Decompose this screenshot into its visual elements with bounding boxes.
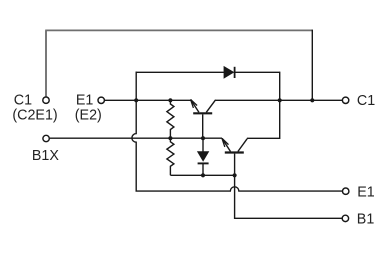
transistor Q1 collector line: [206, 100, 215, 113]
terminal E1 right: [343, 188, 349, 194]
resistor R2: [167, 138, 174, 175]
junction R1 bottom R2 top: [168, 136, 172, 140]
transistor Q1 base bar: [193, 112, 212, 114]
junction D2 cathode on bottom wire: [201, 173, 205, 177]
svg-text:B1X: B1X: [32, 148, 59, 164]
svg-text:(E2): (E2): [75, 107, 102, 123]
transistor Q1 emitter arrow: [191, 100, 198, 108]
wire top loop vertical from C1 (C2E1) terminal: [45, 30, 47, 96]
junction top loop x C1 wire: [310, 98, 314, 102]
diode D2 cathode bar: [198, 162, 209, 164]
svg-text:(C2E1): (C2E1): [12, 108, 57, 124]
junction right vertical x C1 wire: [278, 98, 282, 102]
terminal C1 right: [342, 97, 348, 103]
wire left vertical with hop over B1X wire, then bottom run to E1 with hop over B1 drop: [132, 72, 343, 192]
wire E1 horizontal to Q1 emitter: [105, 99, 191, 101]
svg-text:C1: C1: [357, 93, 375, 109]
transistor Q1 base lead: [202, 114, 204, 138]
terminal C1 (C2E1): [43, 97, 49, 103]
junction Q2 base on bottom wire: [233, 173, 237, 177]
terminal E1 (E2): [98, 97, 104, 103]
junction E1 wire x left vertical: [134, 98, 138, 102]
wire diode branch right segment: [235, 71, 280, 73]
transistor Q2 collector line: [238, 139, 247, 152]
diode D1 cathode bar: [234, 67, 236, 78]
wire bottom between R2, D2 and Q2 base: [170, 174, 234, 176]
wire top loop horizontal: [45, 29, 312, 31]
diode D1 triangle: [224, 67, 234, 78]
svg-text:C1: C1: [14, 93, 32, 109]
svg-text:E1: E1: [76, 92, 94, 108]
terminal B1 right: [342, 215, 348, 221]
transistor Q1 emitter line: [191, 100, 199, 113]
wire B1 drop and run to terminal: [235, 175, 343, 219]
terminal B1X: [43, 135, 49, 141]
junction R1 top: [168, 98, 172, 102]
transistor Q2 emitter arrow: [222, 138, 229, 147]
diode D2 cathode lead: [202, 163, 204, 175]
diode D2 anode lead: [202, 138, 204, 151]
wire Q2 collector to diode junction: [247, 72, 280, 139]
transistor Q2 base bar: [225, 151, 244, 153]
transistor Q2 emitter line: [222, 138, 231, 151]
svg-text:B1: B1: [357, 211, 375, 227]
wire B1X horizontal to Q2 emitter: [50, 137, 222, 139]
transistor Q2 base lead: [234, 154, 236, 176]
wire top loop right vertical down to C1 net: [311, 30, 313, 101]
resistor R1: [167, 100, 174, 138]
wire diode branch left segment: [136, 71, 225, 73]
junction Q1 base on B1X wire: [201, 136, 205, 140]
wire Q1 collector to C1: [215, 99, 342, 101]
diode D2 triangle: [198, 152, 209, 161]
svg-text:E1: E1: [357, 184, 375, 200]
